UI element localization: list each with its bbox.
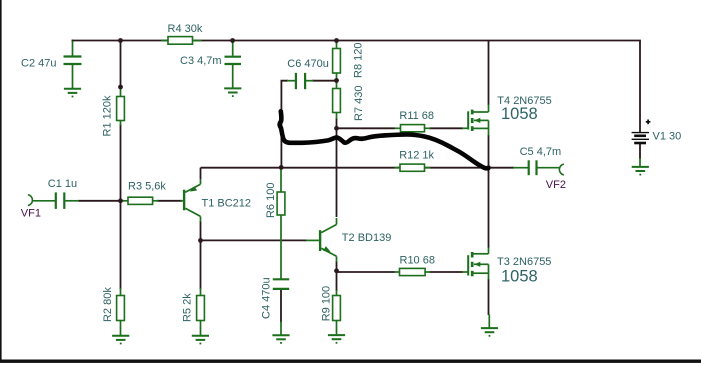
label R4 value <box>168 23 203 35</box>
svg-text:C3 4,7m: C3 4,7m <box>180 55 222 67</box>
svg-text:R11 68: R11 68 <box>399 110 434 122</box>
capacitor C3 lead top <box>232 41 234 56</box>
resistor R6 <box>277 192 285 215</box>
label C3 value <box>180 55 222 67</box>
svg-text:R3 5,6k: R3 5,6k <box>128 181 166 193</box>
svg-text:R10 68: R10 68 <box>400 254 435 266</box>
svg-text:R12 1k: R12 1k <box>399 149 434 161</box>
label C6 value <box>287 58 329 70</box>
junction rail/R8 <box>334 38 339 43</box>
label V1 value <box>653 130 682 142</box>
junction mid rail / C6 / R6 <box>279 165 284 170</box>
wire output node to C5 <box>489 167 515 169</box>
svg-text:VF1: VF1 <box>21 207 41 219</box>
svg-text:T3 2N6755: T3 2N6755 <box>497 256 551 268</box>
capacitor C4 plates <box>273 278 289 280</box>
wire R10 node to R10 left lead <box>337 271 396 273</box>
resistor R9 <box>333 296 341 321</box>
capacitor C2 lead bottom <box>72 65 74 88</box>
label R12 value <box>399 149 434 161</box>
svg-text:T2 BD139: T2 BD139 <box>342 232 392 244</box>
resistor R11 <box>401 125 425 132</box>
junction T2 emitter / R10 / R9 <box>334 268 339 273</box>
wire C1 to R3 segment <box>78 200 122 202</box>
junction output node <box>486 165 491 170</box>
svg-text:R1 120k: R1 120k <box>101 95 113 136</box>
svg-text:R4 30k: R4 30k <box>168 23 203 35</box>
resistor R11 leads <box>395 127 401 129</box>
wire rail to T4 drain <box>488 41 490 106</box>
svg-text:C1 1u: C1 1u <box>48 178 77 190</box>
transistor T2 BD139 <box>306 218 337 262</box>
label R7 value (rotated) <box>353 86 365 121</box>
resistor R1 leads <box>120 87 122 97</box>
capacitor C3 lead bottom <box>232 65 234 88</box>
wire T1 collector down to node <box>200 221 202 240</box>
capacitor C5 lead right <box>537 167 559 169</box>
resistor R4 leads <box>161 40 168 42</box>
svg-text:C6 470u: C6 470u <box>287 58 329 70</box>
capacitor C1 lead right <box>65 200 79 202</box>
ground at R5 <box>192 335 209 337</box>
capacitor C2 plates <box>64 55 82 57</box>
ground at R2 <box>112 335 129 337</box>
svg-text:C5 4,7m: C5 4,7m <box>520 146 562 158</box>
resistor R6 top lead <box>280 169 282 193</box>
resistor R10 leads <box>395 271 400 273</box>
wire R7 bottom to R11 junction <box>336 118 338 128</box>
label R2 value (rotated) <box>102 287 114 322</box>
capacitor C2 lead top <box>72 41 74 56</box>
ground at V1 <box>632 166 649 168</box>
wire C6 right lead to R8/R7 junction <box>312 80 337 82</box>
label T3 1058 <box>501 268 538 286</box>
label T2 type <box>342 232 392 244</box>
frame left border <box>0 0 2 362</box>
resistor R4 <box>168 37 193 45</box>
wire T2 emitter to R10 node <box>336 261 338 271</box>
junction T1 collector / T2 base / R5 <box>198 238 203 243</box>
resistor R8 <box>333 49 341 74</box>
label C1 value <box>48 178 77 190</box>
resistor R12 <box>400 164 425 171</box>
svg-text:R8 120: R8 120 <box>352 43 364 78</box>
label T4 type <box>497 95 551 107</box>
resistor R7 leads <box>336 81 338 89</box>
label R5 value (rotated) <box>181 293 193 322</box>
label C5 value <box>520 146 562 158</box>
wire T1 collector node to T2 base <box>201 239 308 241</box>
MOSFET T3 2N6755 <box>468 248 488 280</box>
label C2 value <box>21 58 56 70</box>
wire R11 junction to R11 left lead <box>337 127 396 129</box>
resistor R1 <box>117 97 125 121</box>
svg-text:R2 80k: R2 80k <box>102 287 114 322</box>
svg-text:R5 2k: R5 2k <box>181 293 193 322</box>
output VF2 terminal arc <box>559 164 564 175</box>
transistor T1 BC212 <box>183 179 201 222</box>
capacitor C5 lead left <box>513 167 528 169</box>
capacitor C1 plates <box>55 192 57 209</box>
wire VF1 node down to R2 <box>120 201 122 289</box>
resistor R3 <box>128 197 153 204</box>
ground at C4 <box>272 334 289 336</box>
wire rail right corner down to V1 <box>639 41 641 133</box>
label R1 value (rotated) <box>101 95 113 136</box>
capacitor C6 lead left <box>287 80 295 82</box>
wire T4 gate lead green <box>462 127 468 129</box>
wire R10 right lead to T3 gate <box>430 271 464 273</box>
wire T1 emitter up to mid rail <box>200 168 202 179</box>
resistor R12 leads <box>395 167 401 169</box>
resistor R6 bottom lead to C4 <box>280 215 282 279</box>
ground at C2 <box>64 88 81 90</box>
label R9 value (rotated) <box>320 286 332 321</box>
wire mid rail y=167.7 from T1 to output node <box>201 167 489 169</box>
label T3 type <box>497 256 551 268</box>
wire top +30V rail y=40.5 <box>72 40 641 42</box>
capacitor C3 plates <box>225 56 242 58</box>
wire T4 source down to output node <box>488 135 490 168</box>
label R10 value <box>400 254 435 266</box>
wire R11 junction down to T2 collector <box>336 128 338 217</box>
resistor R5 <box>197 296 205 321</box>
junction R1 top pin <box>118 85 123 90</box>
ground at R9 <box>328 334 345 336</box>
wire node down to R5 <box>200 240 202 289</box>
wire R1 column: rail to R1 top <box>120 41 122 88</box>
ground at C3 <box>224 87 241 89</box>
wire R3 to T1 base <box>157 200 182 202</box>
resistor R8 leads <box>336 41 338 49</box>
junction rail/R1 <box>118 38 123 43</box>
capacitor C5 plates <box>528 160 530 175</box>
junction R7/R11/T2 collector <box>334 126 339 131</box>
svg-text:VF2: VF2 <box>546 179 566 191</box>
wire T3 source down to ground <box>488 279 490 315</box>
resistor R2 <box>117 296 125 321</box>
junction C6/R8/R7 <box>334 78 339 83</box>
junction VF1 line / R1 / R2 <box>118 198 123 203</box>
wire output node down to T3 drain <box>488 168 490 248</box>
label VF2 <box>546 179 566 191</box>
label T4 1058 <box>501 105 538 123</box>
wire R1 bottom to VF1 line <box>120 124 122 201</box>
wire C2 top corner drop <box>72 40 74 42</box>
resistor R7 <box>333 89 341 113</box>
battery V1 <box>632 120 651 144</box>
label R8 value (rotated) <box>352 43 364 78</box>
capacitor C6 plates <box>295 73 297 89</box>
transistor T1 base lead <box>181 200 184 202</box>
resistor R5 leads <box>200 288 202 296</box>
label T1 type <box>202 197 252 209</box>
wire V1 bottom to ground <box>639 143 641 159</box>
ground at T3 <box>481 327 498 329</box>
wire C6 left lead down to mid rail <box>281 81 288 168</box>
wire T3 gate lead green <box>462 271 468 273</box>
resistor R10 <box>400 268 426 275</box>
label VF1 <box>21 207 41 219</box>
wire R11 right lead to T4 gate <box>430 127 464 129</box>
wire R10 node down to R9 <box>336 271 338 291</box>
svg-text:R9 100: R9 100 <box>320 286 332 321</box>
svg-text:R7 430: R7 430 <box>353 86 365 121</box>
wire C4 bottom to ground <box>280 290 282 323</box>
svg-text:C2 47u: C2 47u <box>21 58 56 70</box>
label C4 value (rotated) <box>260 277 272 319</box>
resistor R3 leads <box>123 200 129 202</box>
frame bottom border <box>0 360 701 363</box>
label R3 value <box>128 181 166 193</box>
label R6 value (rotated) <box>265 183 277 218</box>
svg-text:1058: 1058 <box>501 105 538 123</box>
svg-text:1058: 1058 <box>501 268 538 286</box>
svg-text:V1 30: V1 30 <box>653 130 682 142</box>
resistor R2 leads <box>120 288 122 296</box>
svg-text:T1 BC212: T1 BC212 <box>202 197 252 209</box>
svg-text:C4 470u: C4 470u <box>260 277 272 319</box>
MOSFET T4 2N6755 <box>468 105 488 136</box>
junction rail/C3 <box>230 38 235 43</box>
svg-text:R6 100: R6 100 <box>265 183 277 218</box>
capacitor C6 lead right <box>306 80 314 82</box>
hand-drawn scribble stroke <box>280 111 489 168</box>
label R11 value <box>399 110 434 122</box>
capacitor C1 lead left <box>33 200 55 202</box>
source VF1 terminal arc <box>28 195 33 206</box>
resistor R9 leads <box>336 290 338 296</box>
